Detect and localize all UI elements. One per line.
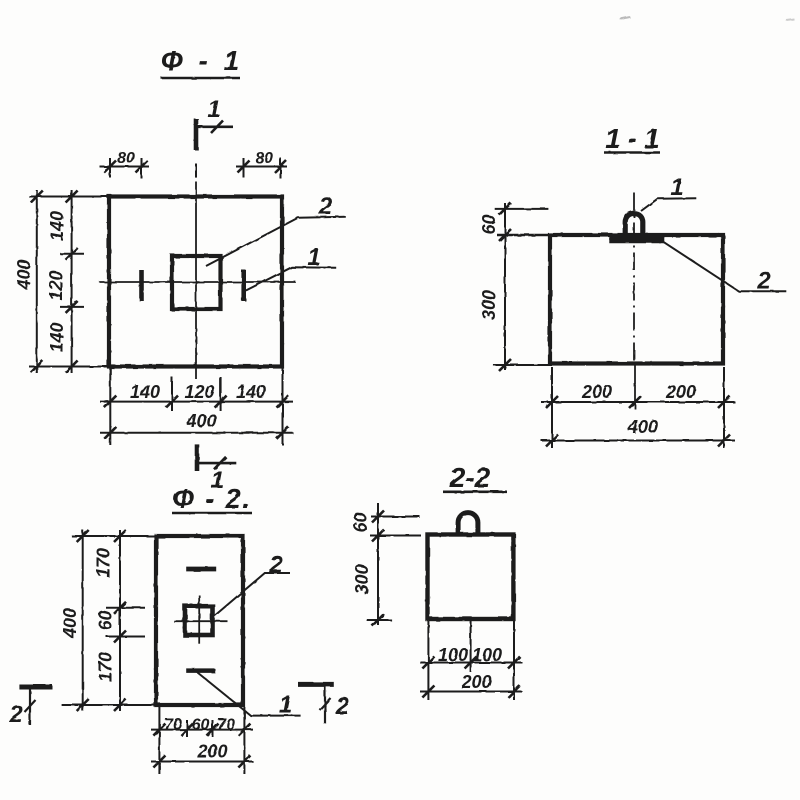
bottom ext mid b xyxy=(220,377,222,411)
pocket crosshair vertical xyxy=(198,595,200,644)
column pocket F-1 xyxy=(172,256,221,309)
leader 1 (F-2) xyxy=(198,673,301,716)
lifting loop 2-2 xyxy=(458,513,478,535)
F-2 left ticks chain xyxy=(114,530,126,542)
1-1 bottom ext left xyxy=(551,367,553,448)
svg-text:400: 400 xyxy=(627,417,658,437)
title 1-1 underline xyxy=(604,151,660,154)
F-2 bottom line2 ticks xyxy=(153,756,165,768)
1-1 left dim line xyxy=(504,203,506,370)
cut mark 2 right stem xyxy=(324,686,326,724)
svg-text:100: 100 xyxy=(438,645,468,665)
F-2 left ext mid a xyxy=(106,607,145,609)
1-1 left ext bottom xyxy=(493,364,552,366)
leader 2 (1-1) xyxy=(663,241,787,291)
svg-text:60: 60 xyxy=(192,717,210,734)
svg-text:1-1: 1-1 xyxy=(605,123,666,154)
svg-text:Ф - 1: Ф - 1 xyxy=(161,45,243,76)
dim 80 left ext b xyxy=(141,158,143,179)
dim 80 right ext b xyxy=(280,158,282,179)
2-2 line1 ticks xyxy=(422,657,434,669)
2-2 bottom dim line 1 xyxy=(420,662,522,664)
section cut mark 1 (top) bar xyxy=(194,119,199,151)
bottom dim line 1 xyxy=(100,401,293,403)
dim 80 left tick a xyxy=(104,161,116,173)
1-1 line1 ticks xyxy=(546,396,558,408)
leader 2 xyxy=(206,217,346,266)
rebar mark right xyxy=(241,270,246,301)
bottom dim line 2 xyxy=(100,432,293,434)
svg-text:2: 2 xyxy=(335,693,350,720)
left dim chain outer line 400 xyxy=(36,190,38,373)
F-2 bottom line1 ticks xyxy=(153,724,165,736)
left ext mid b xyxy=(60,306,84,308)
centerline horizontal xyxy=(99,281,296,283)
dim 80 right tick b xyxy=(275,161,287,173)
1-1 line2 ticks xyxy=(546,435,558,447)
F-2 bottom dim line 1 xyxy=(151,729,253,731)
left ext bottom xyxy=(29,366,109,368)
2-2 bottom ext center xyxy=(470,621,472,672)
block outline 1-1 xyxy=(550,235,723,364)
F-2 left ext mid b xyxy=(106,636,145,638)
svg-text:80: 80 xyxy=(117,150,135,167)
1-1 left ticks xyxy=(499,203,511,215)
bottom ext right xyxy=(282,368,284,445)
svg-text:170: 170 xyxy=(96,652,116,682)
svg-text:2-2: 2-2 xyxy=(449,462,491,493)
svg-text:140: 140 xyxy=(47,322,67,352)
foundation outline F-1 xyxy=(109,197,282,367)
title F-1 underline xyxy=(161,77,240,80)
F-2 left ext top xyxy=(71,535,156,537)
svg-text:60: 60 xyxy=(479,214,499,234)
lower rebar bar xyxy=(186,668,215,673)
svg-text:Ф - 2.: Ф - 2. xyxy=(172,483,251,514)
bottom dim line2 ticks xyxy=(104,427,116,439)
1-1 bottom dim line 1 xyxy=(541,401,735,403)
svg-text:200: 200 xyxy=(665,382,696,402)
scan speck a xyxy=(620,17,630,19)
section cut mark 1 (top) tick xyxy=(211,121,223,134)
centerline vertical dash above square xyxy=(195,164,197,178)
leader 2 (F-2) xyxy=(213,573,291,618)
F-2 bottom ext left xyxy=(158,707,160,774)
2-2 bottom dim line 2 xyxy=(420,691,522,693)
svg-text:400: 400 xyxy=(185,411,216,431)
rebar mark left xyxy=(139,270,144,301)
upper rebar bar xyxy=(186,567,216,572)
F-2 left outer line 400 xyxy=(82,530,84,711)
svg-text:2: 2 xyxy=(318,193,333,220)
svg-text:70: 70 xyxy=(217,717,235,734)
svg-text:70: 70 xyxy=(164,717,182,734)
section cut mark 1 (bottom) bar xyxy=(195,444,200,471)
2-2 left ext mid xyxy=(370,535,421,537)
lifting loop 1-1 xyxy=(625,213,643,236)
svg-text:140: 140 xyxy=(47,211,67,241)
ticks outer line xyxy=(31,191,43,203)
dim 80 right tick a xyxy=(238,161,250,173)
F-2 left chain line xyxy=(119,530,121,711)
left ext top xyxy=(29,196,109,198)
2-2 left dim line xyxy=(377,503,379,625)
svg-text:2: 2 xyxy=(756,268,771,295)
foundation outline F-2 xyxy=(156,536,243,705)
1-1 bottom ext center xyxy=(634,365,636,409)
2-2 bottom ext left xyxy=(427,621,429,700)
title 2-2 underline xyxy=(443,490,507,493)
svg-text:1: 1 xyxy=(670,174,683,201)
svg-text:140: 140 xyxy=(236,382,266,402)
svg-text:120: 120 xyxy=(46,270,66,300)
ticks inner line xyxy=(66,191,78,203)
F-2 bottom ext right xyxy=(243,707,245,774)
svg-text:2: 2 xyxy=(268,552,283,579)
scan speck b xyxy=(786,19,794,20)
svg-text:120: 120 xyxy=(184,382,214,402)
2-2 left ticks xyxy=(372,511,384,523)
svg-text:80: 80 xyxy=(255,150,273,167)
svg-text:1: 1 xyxy=(207,96,220,123)
F-2 bottom ext mid b xyxy=(212,720,214,737)
dim 80 right line xyxy=(236,166,287,168)
pocket F-2 xyxy=(185,606,213,635)
leader 1 (1-1) xyxy=(641,198,696,211)
svg-text:1: 1 xyxy=(279,692,292,719)
bottom dim line1 ticks xyxy=(104,396,116,408)
cut mark 2 left bar xyxy=(19,685,52,690)
svg-text:140: 140 xyxy=(130,382,160,402)
1-1 left ext mid xyxy=(497,234,550,237)
1-1 left ext top xyxy=(495,208,549,210)
svg-text:200: 200 xyxy=(581,382,612,402)
cut mark 2 left tick xyxy=(25,700,36,712)
left ext mid a xyxy=(60,253,84,255)
cut mark 2 right bar xyxy=(298,682,334,687)
leader 1 xyxy=(246,267,336,290)
F-2 bottom ext mid a xyxy=(186,720,188,737)
svg-text:300: 300 xyxy=(479,290,499,320)
svg-text:200: 200 xyxy=(196,742,227,762)
1-1 bottom dim line 2 xyxy=(541,440,735,442)
embedded plate xyxy=(609,237,664,244)
svg-text:60: 60 xyxy=(96,610,116,630)
section cut mark 1 (bottom) arm xyxy=(195,462,236,465)
cut mark 2 left stem xyxy=(29,688,31,725)
svg-text:1: 1 xyxy=(307,244,320,271)
svg-text:60: 60 xyxy=(351,512,371,532)
2-2 line2 ticks xyxy=(422,686,434,698)
2-2 left ext top xyxy=(371,516,420,518)
svg-text:200: 200 xyxy=(460,672,491,692)
section cut mark 1 (top) arm xyxy=(194,126,233,129)
svg-text:400: 400 xyxy=(14,259,34,290)
F-2 bottom dim line 2 xyxy=(151,761,253,763)
F-2 left ticks outer xyxy=(77,530,89,542)
2-2 left ext bottom xyxy=(367,619,392,621)
cut mark 2 right tick xyxy=(320,698,331,710)
svg-text:300: 300 xyxy=(352,564,372,594)
centerline vertical through square xyxy=(195,182,197,380)
dim 80 left line xyxy=(100,166,150,168)
bottom ext mid a xyxy=(171,377,173,411)
bottom ext left xyxy=(109,368,111,445)
dim 80 left ext a xyxy=(109,158,111,178)
centerline 1-1 xyxy=(633,193,635,364)
svg-text:170: 170 xyxy=(94,548,114,578)
left dim chain inner line xyxy=(71,190,73,373)
svg-text:100: 100 xyxy=(472,645,502,665)
F-2 left ext bottom xyxy=(62,704,156,706)
dim 80 left tick b xyxy=(136,161,148,173)
block outline 2-2 xyxy=(428,535,514,620)
svg-text:400: 400 xyxy=(60,608,80,639)
section cut mark 1 (bottom) tick xyxy=(214,457,226,470)
2-2 bottom ext right xyxy=(513,621,515,700)
svg-text:2: 2 xyxy=(8,701,23,728)
dim 80 right ext a xyxy=(243,158,245,178)
1-1 bottom ext right xyxy=(723,367,725,448)
pocket crosshair horizontal xyxy=(174,620,228,622)
title F-2 underline xyxy=(172,512,252,515)
